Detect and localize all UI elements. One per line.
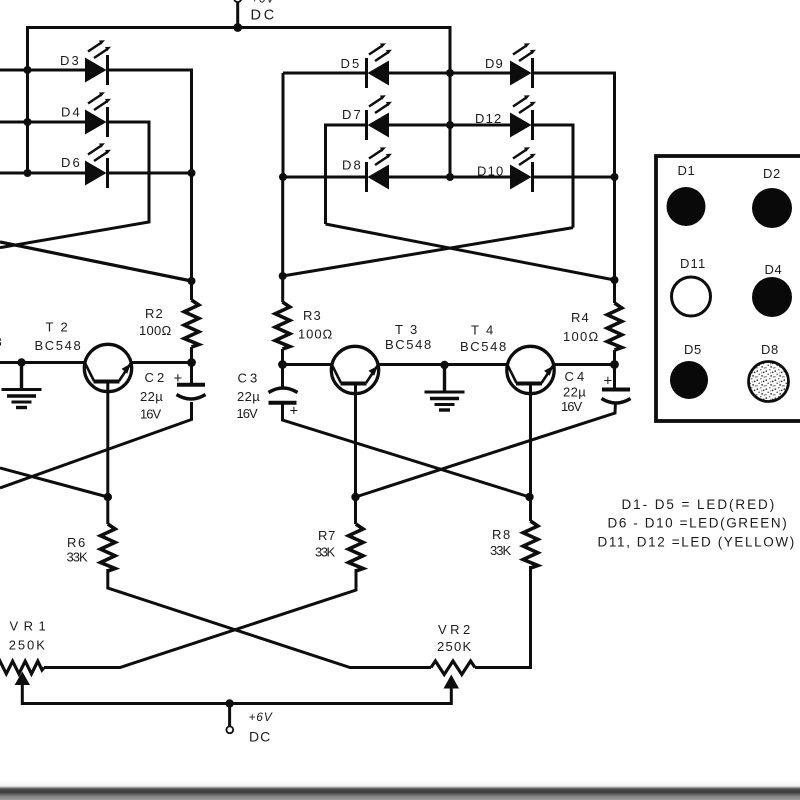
svg-text:22µ: 22µ xyxy=(140,389,164,404)
svg-text:D9: D9 xyxy=(485,56,504,71)
svg-text:33K: 33K xyxy=(67,550,89,565)
svg-text:16V: 16V xyxy=(561,399,583,414)
svg-text:BC548: BC548 xyxy=(385,337,432,352)
svg-text:D8: D8 xyxy=(761,342,779,357)
svg-text:D5: D5 xyxy=(684,342,702,357)
svg-text:D10: D10 xyxy=(477,164,504,179)
svg-text:R8: R8 xyxy=(492,527,511,542)
svg-text:+: + xyxy=(174,370,184,387)
svg-text:D7: D7 xyxy=(342,107,362,122)
svg-text:100Ω: 100Ω xyxy=(139,323,172,338)
svg-text:+6V: +6V xyxy=(251,0,275,6)
svg-text:22µ: 22µ xyxy=(563,385,587,400)
svg-text:VR2: VR2 xyxy=(438,622,471,637)
svg-text:D8: D8 xyxy=(342,158,362,173)
svg-text:+: + xyxy=(290,403,300,420)
svg-text:D6 - D10 =LED(GREEN): D6 - D10 =LED(GREEN) xyxy=(608,516,788,531)
svg-text:+6V: +6V xyxy=(249,710,273,724)
svg-text:D12: D12 xyxy=(475,111,502,126)
svg-text:VR1: VR1 xyxy=(10,619,47,634)
svg-text:D5: D5 xyxy=(341,56,361,71)
svg-text:DC: DC xyxy=(251,8,276,24)
svg-text:33K: 33K xyxy=(315,545,336,560)
svg-text:D1: D1 xyxy=(678,163,696,178)
svg-text:8: 8 xyxy=(0,335,3,350)
svg-text:250K: 250K xyxy=(437,639,472,654)
svg-text:R3: R3 xyxy=(303,308,322,323)
svg-text:16V: 16V xyxy=(140,407,162,422)
svg-text:33K: 33K xyxy=(490,543,512,558)
svg-text:16V: 16V xyxy=(237,406,259,421)
svg-text:D6: D6 xyxy=(61,155,81,170)
svg-text:DC: DC xyxy=(249,729,271,745)
svg-text:BC548: BC548 xyxy=(460,339,507,354)
svg-text:250K: 250K xyxy=(9,638,46,653)
svg-text:D1- D5 = LED(RED): D1- D5 = LED(RED) xyxy=(622,497,776,512)
svg-text:D4: D4 xyxy=(765,262,783,277)
svg-text:R4: R4 xyxy=(571,310,590,325)
svg-text:BC548: BC548 xyxy=(35,338,82,353)
svg-text:R7: R7 xyxy=(318,528,336,543)
svg-text:R6: R6 xyxy=(67,535,86,550)
svg-text:R2: R2 xyxy=(145,306,164,321)
svg-text:D11: D11 xyxy=(680,256,706,271)
svg-text:D2: D2 xyxy=(763,166,781,181)
svg-text:D4: D4 xyxy=(61,105,81,120)
svg-text:D11, D12 =LED (YELLOW): D11, D12 =LED (YELLOW) xyxy=(598,535,796,550)
svg-text:22µ: 22µ xyxy=(237,389,261,404)
svg-text:+: + xyxy=(604,373,614,390)
svg-text:D3: D3 xyxy=(60,53,80,68)
svg-text:100Ω: 100Ω xyxy=(298,327,333,342)
svg-text:100Ω: 100Ω xyxy=(563,329,599,344)
